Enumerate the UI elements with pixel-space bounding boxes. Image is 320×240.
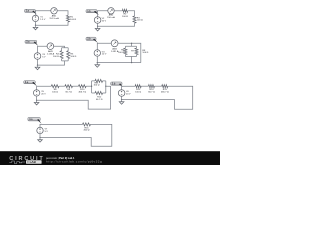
svg-text:66.7 Ω: 66.7 Ω bbox=[65, 92, 72, 94]
label R3 value bbox=[137, 17, 143, 21]
resistor R14 bbox=[148, 85, 154, 88]
voltage source V5 bbox=[33, 90, 39, 96]
wire AM3 to parallel pair bbox=[54, 46, 65, 48]
label V3 value bbox=[42, 54, 46, 58]
voltage source V2 bbox=[94, 17, 101, 24]
svg-text:2.b: 2.b bbox=[87, 38, 91, 41]
resistor R11 bbox=[95, 79, 103, 82]
resistor R13 bbox=[135, 85, 141, 88]
ground GND1 bbox=[35, 25, 37, 27]
wire bracket rails R11 R12 bbox=[92, 81, 106, 93]
node N5 junction bbox=[36, 100, 37, 101]
label R2 value bbox=[122, 14, 128, 18]
ground GND7 bbox=[39, 138, 41, 140]
svg-text:http://circuitlab.com/c/pj6v32: http://circuitlab.com/c/pj6v32g bbox=[46, 159, 102, 163]
label R16 value bbox=[84, 127, 90, 131]
svg-text:150 mA: 150 mA bbox=[107, 16, 115, 19]
wire R9 to R10 bbox=[73, 85, 79, 87]
label V7 value bbox=[45, 129, 49, 133]
wire V6 top to R13 bbox=[122, 86, 136, 89]
annotation tag 2.a bbox=[25, 40, 37, 43]
resistor R15 bbox=[162, 85, 168, 88]
wire return to V4 bottom bbox=[97, 56, 141, 62]
label AM2 value bbox=[107, 14, 115, 19]
wire AM1 to R1 bbox=[57, 11, 68, 16]
wire AM2 to R2 bbox=[114, 10, 122, 12]
label R10 value bbox=[78, 89, 86, 93]
footer bar bbox=[0, 151, 220, 165]
wire V1 top to AM1 bbox=[36, 11, 51, 15]
svg-text:100 Ω: 100 Ω bbox=[52, 92, 58, 94]
label R5 value bbox=[70, 53, 76, 57]
resistor R3 bbox=[133, 16, 136, 23]
svg-text:3.b: 3.b bbox=[112, 82, 116, 85]
node N5b junction bbox=[105, 86, 106, 87]
label R15 value bbox=[161, 89, 169, 93]
label R1 value bbox=[70, 17, 76, 21]
resistor R4 bbox=[60, 51, 63, 59]
label R12 value bbox=[96, 97, 103, 101]
label AM4 value bbox=[111, 48, 119, 53]
svg-text:66.7 Ω: 66.7 Ω bbox=[148, 92, 155, 94]
node N4a junction bbox=[131, 43, 132, 44]
svg-text:15 V: 15 V bbox=[102, 21, 107, 23]
wire R3 to V2 bottom bbox=[98, 23, 135, 26]
CircuitLab logo trace squiggle bbox=[9, 161, 25, 163]
resistor R16 bbox=[83, 123, 91, 126]
resistor R12 bbox=[95, 92, 103, 95]
label V6 value bbox=[126, 91, 131, 95]
ammeter AM1 bbox=[51, 8, 57, 14]
label V2 value bbox=[102, 18, 107, 22]
svg-text:10 V: 10 V bbox=[102, 54, 107, 56]
label V4 value bbox=[102, 51, 107, 55]
node N4b junction bbox=[131, 62, 132, 63]
voltage source V7 bbox=[37, 127, 43, 133]
annotation tag 4.a bbox=[28, 117, 40, 121]
label R6 value bbox=[118, 50, 125, 54]
annotation tag 2.b bbox=[86, 37, 96, 40]
wire V4 top to AM4 bbox=[97, 43, 111, 50]
voltage source V1 bbox=[32, 15, 38, 21]
resistor R1 bbox=[67, 15, 70, 22]
resistor R10 bbox=[79, 85, 87, 88]
svg-text:400 Ω: 400 Ω bbox=[84, 130, 90, 132]
voltage source V3 bbox=[34, 53, 41, 60]
wire R14 to R15 bbox=[155, 85, 162, 87]
svg-text:100 Ω: 100 Ω bbox=[137, 20, 143, 22]
label R14 value bbox=[148, 89, 155, 93]
node N2 junction bbox=[97, 26, 98, 27]
resistor R9 bbox=[65, 85, 73, 88]
label AM1 value bbox=[49, 15, 59, 20]
wire V3 top to AM3 bbox=[38, 46, 48, 53]
annotation tag 1.a bbox=[25, 9, 36, 12]
label R7 value bbox=[142, 50, 148, 54]
voltage source V4 bbox=[94, 50, 100, 56]
svg-text:LAB: LAB bbox=[30, 160, 37, 164]
svg-text:1.5 V: 1.5 V bbox=[40, 19, 46, 21]
svg-text:20 V: 20 V bbox=[41, 94, 46, 96]
resistor R2 bbox=[122, 9, 127, 12]
wire AM4 to corner bbox=[118, 43, 141, 62]
resistor R5 bbox=[67, 51, 70, 59]
label AM3 value bbox=[47, 50, 55, 55]
svg-text:100 Ω: 100 Ω bbox=[142, 52, 148, 54]
wire R2 to R3 bbox=[128, 11, 135, 16]
wire V7 top to R16 bbox=[40, 124, 83, 127]
svg-text:100 Ω: 100 Ω bbox=[135, 92, 141, 94]
label R9 value bbox=[65, 89, 72, 93]
wire R15 return loop bbox=[122, 86, 193, 109]
svg-text:5 V: 5 V bbox=[42, 57, 46, 59]
label R4 value bbox=[53, 53, 60, 57]
svg-text:466.7 Ω: 466.7 Ω bbox=[161, 92, 169, 94]
wire R1 to V1 bottom bbox=[36, 22, 69, 26]
ground GND3 bbox=[37, 65, 39, 67]
annotation tag 1.b bbox=[86, 10, 97, 13]
wire R8 to R9 bbox=[59, 85, 65, 87]
svg-text:5 V: 5 V bbox=[45, 131, 49, 133]
annotation tag 3.b bbox=[111, 82, 122, 85]
node N7 junction bbox=[39, 137, 40, 138]
node N5a junction bbox=[91, 86, 92, 87]
svg-text:46.7 Ω: 46.7 Ω bbox=[96, 99, 103, 101]
ground GND6 bbox=[121, 100, 123, 102]
ground GND2 bbox=[97, 26, 99, 28]
resistor R8 bbox=[51, 85, 59, 88]
voltage source V6 bbox=[118, 90, 125, 97]
annotation tag 3.a bbox=[24, 81, 36, 84]
wire bracket rails R6 R7 bbox=[125, 43, 136, 62]
label R11 value bbox=[93, 82, 99, 86]
node N3 junction bbox=[37, 64, 38, 65]
wire V2 top to AM2 bbox=[98, 11, 108, 17]
label V1 value bbox=[40, 17, 46, 21]
svg-text:100 Ω: 100 Ω bbox=[70, 19, 76, 21]
wire R10 to pair bbox=[86, 85, 92, 87]
wire pair to V3 bottom bbox=[38, 59, 65, 65]
resistor R6 bbox=[124, 48, 127, 55]
wire R16 return loop bbox=[40, 124, 112, 146]
ammeter AM3 bbox=[47, 43, 54, 50]
label R13 value bbox=[135, 89, 141, 93]
svg-text:20 V: 20 V bbox=[126, 94, 131, 96]
wire R13 to R14 bbox=[141, 85, 148, 87]
ammeter AM2 bbox=[108, 8, 114, 14]
ammeter AM4 bbox=[111, 40, 118, 47]
svg-text:100 Ω: 100 Ω bbox=[70, 56, 76, 58]
node N6 junction bbox=[121, 99, 122, 100]
svg-text:466.7 Ω: 466.7 Ω bbox=[78, 92, 86, 94]
label R8 value bbox=[52, 89, 58, 93]
resistor R7 bbox=[135, 48, 138, 55]
CircuitLab logo LAB box bbox=[26, 160, 42, 164]
wire V5 top to R8 bbox=[37, 86, 52, 90]
svg-text:151.5 mA: 151.5 mA bbox=[49, 17, 59, 20]
ground GND5 bbox=[36, 100, 38, 102]
wire pair out return bbox=[37, 86, 111, 109]
svg-text:100 Ω: 100 Ω bbox=[122, 16, 128, 18]
node N1 junction bbox=[35, 25, 36, 26]
ground GND4 bbox=[96, 63, 98, 65]
node N4 junction bbox=[97, 62, 98, 63]
svg-text:100 Ω: 100 Ω bbox=[93, 85, 99, 87]
wire bracket rails R4 R5 bbox=[62, 48, 69, 61]
svg-text:100 Ω: 100 Ω bbox=[53, 56, 59, 58]
svg-text:1.b: 1.b bbox=[87, 10, 91, 13]
label V5 value bbox=[41, 91, 46, 95]
svg-text:100 Ω: 100 Ω bbox=[118, 52, 124, 54]
